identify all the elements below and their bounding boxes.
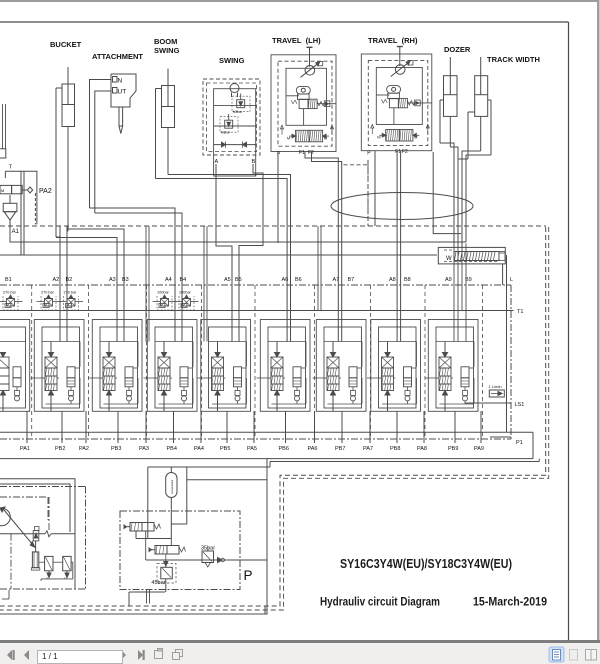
travel pilot triangles <box>371 125 430 135</box>
accumulator branch <box>171 467 187 524</box>
wire attachment OUT <box>95 91 111 213</box>
label BOOM SWING <box>154 37 180 55</box>
pilot relief 35bar <box>201 546 215 568</box>
relief valve B4 100bar <box>175 291 199 311</box>
wire boom swing A long run <box>156 179 288 342</box>
relief valve B2 270bar <box>59 291 83 311</box>
cylinder TRACK WIDTH <box>468 57 491 159</box>
right dashed boundary <box>0 227 546 606</box>
accumulator <box>166 467 177 539</box>
wire travel RH F2 <box>400 151 402 342</box>
cylinder BUCKET <box>56 67 75 237</box>
cylinder BOOM SWING <box>156 69 175 179</box>
valve section at x=67 <box>31 320 85 412</box>
swing relief valve 2 <box>214 114 256 135</box>
travel brake line <box>307 47 313 67</box>
wire pair x146 <box>146 226 149 342</box>
label P1 wire <box>490 436 511 438</box>
attachment tool <box>119 107 123 134</box>
T1 return line <box>0 310 514 312</box>
wire attachment A drop <box>90 208 176 342</box>
wire bucket A drop <box>56 237 60 342</box>
pilot filter A1 <box>3 195 17 220</box>
pilot manifold boundary <box>120 511 240 590</box>
layout icon disabled <box>570 650 578 661</box>
LS1 wire <box>465 402 511 404</box>
wire travel RH F1 <box>396 151 398 342</box>
pump outlet corner <box>2 590 9 599</box>
travel counterbalance valve <box>286 96 336 126</box>
layout icon two page <box>586 650 597 661</box>
travel block outer box <box>271 55 336 152</box>
diamond port PA2 <box>27 187 32 193</box>
wire bucket B drop <box>67 231 68 342</box>
pilot box PA2 <box>5 171 37 224</box>
toolbar next button <box>121 650 126 660</box>
wire travel RH M brake <box>433 152 461 234</box>
valve bank boundary bottom <box>0 438 511 440</box>
toolbar prev button <box>24 650 29 660</box>
wire travel RH P2 <box>374 151 376 226</box>
wire T drop <box>23 171 25 255</box>
wire track width B <box>466 155 491 242</box>
swing relief valve 1 <box>214 94 256 115</box>
travel brake line <box>397 47 403 67</box>
wires below W valve to section9 <box>454 264 466 342</box>
travel motor circuit box <box>286 68 327 125</box>
boundary vertical dashed <box>367 160 369 226</box>
valve bank boundary right <box>510 285 512 439</box>
valve section at x=349 <box>313 320 367 412</box>
wire section2 A short <box>59 226 61 342</box>
wire swing B <box>239 164 263 342</box>
travel motor circuit box <box>376 68 422 125</box>
swing motor block <box>203 79 260 176</box>
pump inner dashdot box <box>11 497 49 589</box>
travel block dashed boundary <box>278 61 332 146</box>
travel block outer box <box>361 54 432 151</box>
section divider dashed lines <box>32 285 483 439</box>
wire below W valve <box>502 264 504 285</box>
right dashed boundary inner <box>0 227 549 610</box>
travel counterbalance valve <box>376 95 432 125</box>
pump circle <box>0 507 35 547</box>
pilot relief 45bar <box>151 555 176 587</box>
bank right vertical <box>506 255 508 432</box>
cylinder DOZER <box>440 57 457 147</box>
travel pilot triangles <box>281 125 334 135</box>
valve section at x=403.5 <box>367 320 421 412</box>
pilot supply line top <box>148 459 539 539</box>
pilot drain pair <box>147 590 150 604</box>
wires through W valve <box>454 243 466 264</box>
left edge wire pair <box>3 104 6 149</box>
travel port labels <box>277 150 314 158</box>
pump valve 2 <box>63 556 71 577</box>
wire travel LH F2 <box>312 152 342 342</box>
tank symbol <box>0 149 6 158</box>
wire swing A <box>216 164 232 342</box>
inner dashed corner <box>264 606 266 614</box>
wire attachment B drop <box>95 213 182 342</box>
upper structure boundary <box>0 225 546 227</box>
dashed boundary pa2 <box>34 193 36 224</box>
travel block dashed boundary <box>368 60 428 145</box>
wire pa2 link <box>22 189 27 191</box>
travel variable motor <box>301 61 323 77</box>
wire boom swing B long run <box>168 175 291 342</box>
pilot manifold lines <box>136 531 214 592</box>
swing port labels <box>215 159 256 165</box>
orifice 1 L/min <box>489 384 505 397</box>
valve bank boundary top <box>0 284 511 286</box>
wire track width A <box>458 158 468 160</box>
wire travel RH P dashed <box>344 165 369 226</box>
valve section 1 partial <box>0 320 30 412</box>
relief valve A2 270bar <box>37 291 61 311</box>
swivel joint <box>331 193 473 220</box>
travel speed shift valve <box>377 130 419 142</box>
wire pair x318 <box>318 226 321 310</box>
wire pair x204 <box>204 226 207 342</box>
pilot outlet wire <box>0 459 267 614</box>
valve section at x=461 <box>425 320 479 412</box>
valve section at x=293 <box>257 320 311 412</box>
wire dozer A <box>440 143 454 248</box>
valve section at x=125 <box>89 320 143 412</box>
travel speed selector valve W <box>438 247 505 264</box>
relief valve B1 270bar <box>0 291 23 311</box>
port labels top row <box>5 277 513 283</box>
wire A1 long run <box>10 220 466 242</box>
pilot solenoid valve 2 <box>149 546 186 555</box>
travel variable motor <box>391 61 413 77</box>
wire section2 B short <box>66 226 68 342</box>
travel port labels <box>367 149 408 157</box>
pump assembly box <box>0 479 86 589</box>
sheet border top <box>0 21 569 23</box>
sheet border right <box>568 22 570 641</box>
travel shuttle valve <box>296 86 310 99</box>
toolbar snapshot icons <box>155 649 183 660</box>
pump valve 1 <box>45 556 53 577</box>
pilot solenoid valve 1 <box>124 523 161 532</box>
toolbar first page button <box>7 650 15 660</box>
swing check valves <box>214 142 256 148</box>
wire crossover to section3 B <box>68 229 124 342</box>
valve section at x=233.5 <box>197 320 251 412</box>
wire B1 drop <box>20 171 22 255</box>
attachment coupler <box>111 74 136 107</box>
toolbar dropdown arrow <box>108 654 113 657</box>
valve bank top edge <box>0 254 437 256</box>
valve section at x=180 <box>144 320 198 412</box>
port labels bottom row <box>20 440 523 452</box>
travel shuttle valve <box>387 86 401 99</box>
wire dozer B <box>450 147 458 248</box>
pump outlet lines <box>39 562 73 581</box>
wire attachment IN <box>90 80 112 209</box>
wire travel LH P <box>277 152 279 243</box>
layout icon single page active <box>549 647 564 662</box>
wire crossover to section3 A <box>56 238 117 342</box>
pump suction filter <box>31 541 39 570</box>
valve bank footer box <box>0 432 533 458</box>
travel speed shift valve <box>287 130 329 142</box>
pilot check valve <box>214 558 226 563</box>
solenoid valve PA2 <box>0 185 22 193</box>
relief valve A4 100bar <box>153 291 177 311</box>
wire travel LH F1 <box>305 152 338 342</box>
bottom port stubs <box>27 411 481 443</box>
wire track width rod <box>462 151 481 248</box>
toolbar last page button <box>138 650 145 660</box>
pump line horizontal <box>0 531 75 537</box>
swing motor <box>230 84 239 98</box>
pump small valve <box>33 527 39 541</box>
